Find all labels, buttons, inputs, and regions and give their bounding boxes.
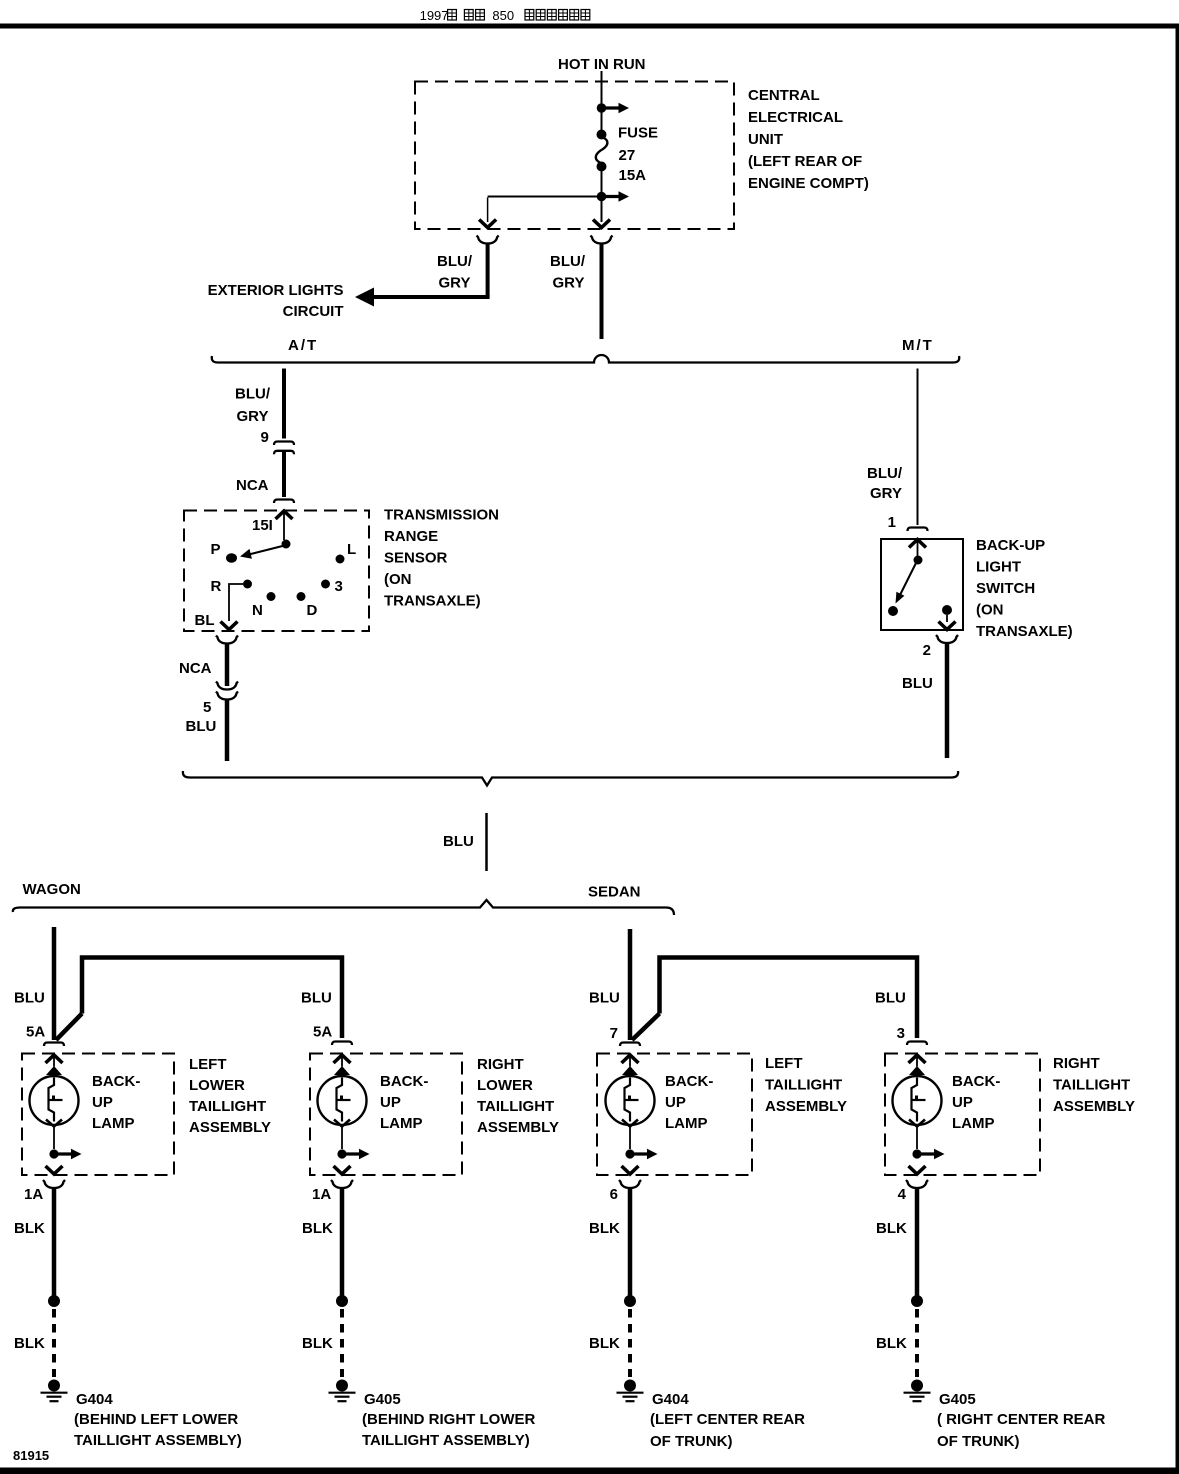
svg-text:RIGHT: RIGHT [1053,1055,1100,1072]
transmission range sensor box [184,511,369,632]
svg-text:BLK: BLK [589,1220,620,1237]
svg-text:OF TRUNK): OF TRUNK) [937,1433,1020,1450]
svg-text:HOT IN RUN: HOT IN RUN [558,56,646,73]
svg-text:15A: 15A [619,167,647,184]
svg-text:BLU/: BLU/ [550,253,586,270]
wire NCA 2 [225,644,230,687]
label BLU/GRY M/T [867,465,903,502]
label BLU/GRY left [437,253,473,292]
fuse 27 15A [596,130,608,172]
back-up lamp 3 [606,1055,658,1188]
back-up lamp 1 [30,1055,82,1188]
svg-text:TAILLIGHT ASSEMBLY): TAILLIGHT ASSEMBLY) [74,1432,242,1449]
connector at sensor [274,500,294,504]
svg-text:GRY: GRY [237,408,269,425]
brace wagon sedan split [13,900,674,915]
svg-text:ELECTRICAL: ELECTRICAL [748,109,843,126]
wire R to output [229,584,243,621]
column 1 ground chain [14,1186,60,1377]
svg-text:(ON: (ON [976,602,1004,619]
svg-text:(ON: (ON [384,571,412,588]
svg-text:1A: 1A [24,1186,43,1203]
left taillight assembly box [597,1054,752,1176]
wire A/T BLU/GRY [282,369,286,439]
svg-text:TAILLIGHT ASSEMBLY): TAILLIGHT ASSEMBLY) [362,1432,530,1449]
switch wiper to P [240,546,285,559]
svg-text:LAMP: LAMP [665,1115,708,1132]
svg-text:ASSEMBLY: ASSEMBLY [765,1098,847,1115]
node junction with arrow [597,103,607,113]
central electrical unit box U1 [415,82,734,230]
svg-text:BLU/: BLU/ [235,386,271,403]
svg-text:9: 9 [261,429,269,446]
wire sedan jumper [660,958,918,1039]
svg-text:BL: BL [195,612,215,629]
svg-text:2: 2 [923,642,931,659]
svg-text:BLK: BLK [876,1335,907,1352]
label exterior lights circuit [208,282,344,320]
svg-text:UNIT: UNIT [748,131,783,148]
back-up lamp 4 [893,1055,945,1188]
switch contact top [914,556,923,565]
wire branch horizontal [488,196,602,198]
wire wagon jumper diagonal [56,1014,82,1041]
svg-text:BLU: BLU [589,990,620,1007]
connector below switch [936,635,958,643]
svg-text:LEFT: LEFT [189,1056,227,1073]
svg-text:(LEFT REAR OF: (LEFT REAR OF [748,153,862,170]
label central electrical unit [748,87,869,192]
svg-text:CENTRAL: CENTRAL [748,87,820,104]
svg-text:UP: UP [92,1094,113,1111]
svg-text:BLK: BLK [876,1220,907,1237]
svg-text:BLU: BLU [443,833,474,850]
wire main down [601,200,603,222]
wire hot-in-run feed [601,71,603,104]
svg-text:5: 5 [203,699,211,716]
wire wagon jumper [82,958,342,1039]
svg-text:GRY: GRY [439,275,471,292]
svg-text:UP: UP [952,1094,973,1111]
svg-text:BLK: BLK [14,1335,45,1352]
svg-text:LAMP: LAMP [380,1115,423,1132]
svg-text:BLU/: BLU/ [437,253,473,270]
svg-text:G404: G404 [652,1391,689,1408]
svg-text:15I: 15I [252,517,273,534]
svg-text:OF TRUNK): OF TRUNK) [650,1433,733,1450]
svg-text:SENSOR: SENSOR [384,550,448,567]
svg-text:5A: 5A [26,1024,45,1041]
terminal D [297,592,306,601]
title text [420,8,590,23]
svg-text:SWITCH: SWITCH [976,580,1035,597]
svg-text:BLU: BLU [186,718,217,735]
terminal R [243,580,252,589]
svg-text:G405: G405 [939,1391,976,1408]
wire sedan feed [628,929,633,1040]
svg-text:N: N [252,602,263,619]
svg-text:BLK: BLK [302,1220,333,1237]
svg-text:(BEHIND RIGHT LOWER: (BEHIND RIGHT LOWER [362,1411,535,1428]
svg-text:LEFT: LEFT [765,1055,803,1072]
svg-text:GRY: GRY [553,275,585,292]
svg-text:3: 3 [897,1025,905,1042]
svg-text:WAGON: WAGON [23,881,81,898]
column 3 ground chain [589,1186,636,1377]
svg-text:P: P [210,541,220,558]
ground G405 trunk right [904,1380,931,1402]
connector below sensor [216,636,238,644]
node junction 2 with arrow [597,192,607,202]
svg-text:BACK-: BACK- [92,1073,140,1090]
svg-text:(LEFT CENTER REAR: (LEFT CENTER REAR [650,1411,805,1428]
svg-text:GRY: GRY [870,485,902,502]
svg-text:6: 6 [610,1186,618,1203]
svg-text:BACK-: BACK- [952,1073,1000,1090]
terminal N [267,592,276,601]
svg-text:BLU: BLU [301,990,332,1007]
svg-text:LOWER: LOWER [189,1077,245,1094]
connector below box right [591,236,613,244]
svg-text:7: 7 [610,1025,618,1042]
terminal 3 [321,580,330,589]
svg-text:G405: G405 [364,1391,401,1408]
left lower taillight assembly box [22,1054,174,1176]
svg-text:G404: G404 [76,1391,113,1408]
wire sedan jumper diagonal [632,1014,660,1041]
svg-text:5A: 5A [313,1024,332,1041]
svg-text:TRANSAXLE): TRANSAXLE) [976,623,1073,640]
wire BLU at [225,700,230,762]
svg-text:TRANSAXLE): TRANSAXLE) [384,593,481,610]
right border [1176,24,1179,1474]
ground G404 trunk left [617,1380,644,1402]
wire M/T BLU/GRY [917,369,919,526]
switch blade open [896,563,917,604]
back-up lamp 2 [318,1055,370,1188]
column 2 ground chain [302,1186,348,1377]
wire fuse to junction [601,170,603,193]
top border bar [0,24,1179,29]
svg-text:ASSEMBLY: ASSEMBLY [1053,1098,1135,1115]
label back-up light switch [976,537,1073,640]
label BLU/GRY A/T [235,386,271,426]
svg-text:A/T: A/T [288,337,318,354]
svg-text:1: 1 [888,514,896,531]
svg-text:UP: UP [380,1094,401,1111]
svg-text:4: 4 [898,1186,907,1203]
label transmission range sensor [384,507,499,610]
column 4 ground chain [876,1186,923,1377]
svg-text:BLK: BLK [589,1335,620,1352]
sensor entry arrow [276,511,293,519]
switch terminal output [942,605,952,615]
svg-text:BLU/: BLU/ [867,465,903,482]
svg-text:UP: UP [665,1094,686,1111]
terminal L [336,555,345,564]
brace A/T M/T split [212,355,960,362]
back-up light switch box S1 [881,539,963,630]
bottom border bar [0,1468,1179,1474]
connector switch input [908,528,928,532]
connector 9 inline pair [274,442,294,446]
svg-text:ENGINE COMPT): ENGINE COMPT) [748,175,869,192]
connector 5 inline pair [216,682,238,690]
svg-text:BLK: BLK [302,1335,333,1352]
ground G404 left lower [41,1380,68,1402]
svg-text:27: 27 [619,147,636,164]
svg-text:TAILLIGHT: TAILLIGHT [765,1077,842,1094]
svg-text:D: D [307,602,318,619]
wire BLU common [485,813,488,871]
svg-text:NCA: NCA [179,660,212,677]
switch terminal bottom left [888,606,898,616]
brace merge at mt [183,771,958,786]
right taillight assembly box [885,1054,1040,1176]
svg-text:RANGE: RANGE [384,528,438,545]
svg-text:LIGHT: LIGHT [976,559,1021,576]
terminal P [226,553,237,562]
ground G405 right lower [329,1380,356,1402]
svg-text:CIRCUIT: CIRCUIT [283,303,344,320]
svg-text:1997: 1997 [420,8,449,23]
wire wagon feed [52,927,57,1040]
svg-text:BLK: BLK [14,1220,45,1237]
wire NCA [282,452,286,497]
svg-text:81915: 81915 [13,1448,49,1463]
node sensor common [282,540,291,549]
label BLU/GRY right [550,253,586,292]
wire to exterior lights [355,244,490,307]
connector below box left [477,236,499,244]
right lower taillight assembly box [310,1054,462,1176]
switch entry arrow [909,540,926,548]
svg-text:TAILLIGHT: TAILLIGHT [477,1098,554,1115]
svg-text:BLU: BLU [14,990,45,1007]
svg-text:TAILLIGHT: TAILLIGHT [1053,1077,1130,1094]
svg-text:1A: 1A [312,1186,331,1203]
label fuse [618,125,658,185]
wire BLU mt [945,643,950,758]
svg-text:R: R [211,578,222,595]
wire branch down left [487,198,489,223]
svg-text:SEDAN: SEDAN [588,884,641,901]
svg-text:(BEHIND LEFT LOWER: (BEHIND LEFT LOWER [74,1411,238,1428]
svg-text:( RIGHT CENTER REAR: ( RIGHT CENTER REAR [937,1411,1106,1428]
svg-text:TRANSMISSION: TRANSMISSION [384,507,499,524]
svg-text:RIGHT: RIGHT [477,1056,524,1073]
svg-text:L: L [347,541,356,558]
svg-text:LAMP: LAMP [952,1115,995,1132]
svg-text:M/T: M/T [902,337,934,354]
wire to fuse [601,112,603,130]
svg-text:BACK-: BACK- [380,1073,428,1090]
svg-text:BACK-UP: BACK-UP [976,537,1045,554]
svg-text:TAILLIGHT: TAILLIGHT [189,1098,266,1115]
svg-text:850: 850 [492,8,514,23]
svg-text:EXTERIOR LIGHTS: EXTERIOR LIGHTS [208,282,344,299]
svg-text:FUSE: FUSE [618,125,658,142]
svg-text:NCA: NCA [236,477,269,494]
wire main BLU/GRY down [600,244,604,340]
svg-text:LAMP: LAMP [92,1115,135,1132]
svg-text:ASSEMBLY: ASSEMBLY [189,1119,271,1136]
svg-text:BLU: BLU [875,990,906,1007]
svg-text:LOWER: LOWER [477,1077,533,1094]
svg-text:BLU: BLU [902,675,933,692]
svg-text:ASSEMBLY: ASSEMBLY [477,1119,559,1136]
svg-text:3: 3 [335,578,343,595]
svg-text:BACK-: BACK- [665,1073,713,1090]
